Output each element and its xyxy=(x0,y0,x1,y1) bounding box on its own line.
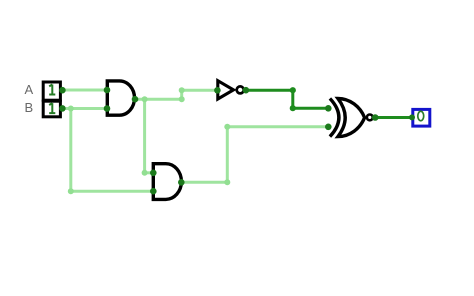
pin AND2 in bottom xyxy=(150,188,157,195)
input box B xyxy=(43,101,60,117)
wire NOT output (high) xyxy=(246,90,327,108)
wire XNOR output to O xyxy=(375,116,412,119)
input box A xyxy=(43,82,60,100)
NOT bubble xyxy=(237,86,244,93)
wire to NOT input xyxy=(182,89,216,92)
junction dot B branch xyxy=(68,106,74,112)
pin AND2 out xyxy=(178,179,185,186)
pin B xyxy=(59,105,66,112)
pin NOT out xyxy=(243,87,250,94)
corner dot B branch bottom xyxy=(68,188,74,194)
svg-text:B: B xyxy=(24,100,33,115)
wire branch down from AND1 output xyxy=(143,99,146,173)
wire AND2 output xyxy=(181,181,227,184)
value 1 of B xyxy=(49,103,55,113)
pin AND1 in top xyxy=(104,87,111,94)
wire to AND2 bottom input xyxy=(71,190,152,193)
svg-text:A: A xyxy=(24,82,33,97)
wire branch from B down xyxy=(69,109,72,192)
XNOR gate U4 back arc xyxy=(330,99,339,137)
pin XNOR in top xyxy=(325,105,332,112)
NOT gate U3 xyxy=(218,81,234,99)
corner dot jog top xyxy=(179,87,185,93)
wire to AND2 top input xyxy=(145,171,152,174)
pin XNOR out xyxy=(372,114,379,121)
wire to XNOR bottom input xyxy=(227,125,327,128)
wire jog up xyxy=(180,90,183,99)
pin AND1 out xyxy=(132,96,139,103)
label O xyxy=(418,111,424,121)
corner dot jog bottom xyxy=(179,96,185,102)
pin AND1 in bottom xyxy=(104,105,111,112)
pin XNOR in bottom xyxy=(325,124,332,131)
XNOR gate U4 body xyxy=(338,99,365,137)
pin O xyxy=(409,114,415,120)
output box O xyxy=(413,109,430,126)
wire up from AND2 output xyxy=(226,127,229,183)
wire B to AND1 bottom input xyxy=(62,107,106,110)
pin NOT in xyxy=(214,87,221,94)
AND gate U1 xyxy=(107,81,134,115)
wire A to AND1 top input xyxy=(62,89,106,92)
XNOR bubble xyxy=(367,115,373,121)
corner dot XNOR bottom wire xyxy=(224,124,230,130)
junction dot AND1 output branch xyxy=(142,96,148,102)
corner dot AND2 top input xyxy=(142,170,148,176)
wire AND1 output xyxy=(135,98,182,101)
corner dot NOT output bottom xyxy=(290,105,296,111)
corner dot NOT output top xyxy=(290,87,296,93)
AND gate U2 xyxy=(153,164,181,200)
pin A xyxy=(59,87,66,94)
pin AND2 in top xyxy=(150,170,157,177)
corner dot AND2 output xyxy=(224,179,230,185)
value 1 of A xyxy=(49,85,55,95)
